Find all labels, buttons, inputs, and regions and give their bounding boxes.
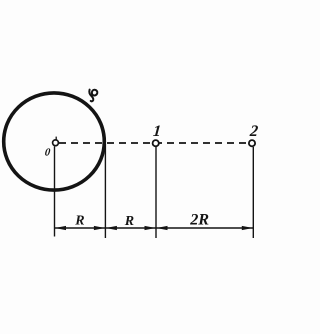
label phi (charge/potential symbol) (89, 90, 97, 102)
node 1 (153, 140, 159, 146)
extension line from node 1 down (155, 147, 157, 238)
svg-text:R: R (74, 214, 84, 229)
extension line from node 2 down (252, 147, 254, 238)
svg-text:0: 0 (44, 147, 51, 159)
sphere (circle of radius R) (4, 93, 105, 190)
svg-text:1: 1 (152, 123, 161, 140)
arrowheads on dimension line (55, 226, 253, 230)
svg-text:2R: 2R (189, 211, 209, 229)
extension line from circle right edge down (104, 144, 106, 239)
svg-text:2: 2 (248, 123, 258, 140)
dimension line (55, 227, 254, 229)
dashed axis line from O to point 2 (59, 142, 248, 144)
centre tick above node O (55, 137, 57, 140)
svg-text:R: R (124, 214, 134, 229)
extension line from O down (54, 147, 56, 237)
node 2 (249, 140, 255, 146)
node O (small circle at centre) (53, 140, 59, 146)
